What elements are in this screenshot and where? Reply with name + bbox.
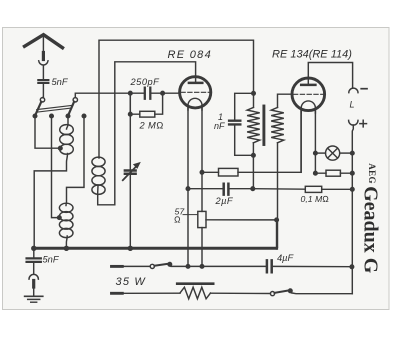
wire heater row — [202, 110, 301, 172]
node grid right — [161, 91, 165, 95]
wire L1 bottom — [34, 154, 67, 248]
resistor R3 57ohm box — [198, 211, 206, 227]
wire L2 bottom to bus — [65, 236, 68, 248]
wire R5 row — [253, 188, 352, 191]
switch S1 pole a pivot — [40, 98, 44, 102]
variable capacitor C3 plates — [125, 171, 136, 174]
transformer T1 secondary — [271, 107, 284, 142]
node R5 right — [351, 188, 355, 192]
svg-text:Geadux G: Geadux G — [360, 186, 382, 274]
coil L1 — [60, 125, 74, 135]
antenna — [25, 35, 63, 48]
node C4 right — [251, 187, 255, 191]
transformer T1 core — [262, 106, 265, 145]
wire lamp left — [315, 152, 325, 154]
wire antenna stem — [42, 36, 44, 53]
heater resistor R6 bar — [177, 282, 213, 285]
tube U2 grid dashes — [294, 93, 324, 95]
resistor R1 2Mohm box — [140, 111, 155, 117]
switch S2 pivot — [150, 264, 154, 268]
plus sign — [360, 120, 367, 127]
wire grid line — [75, 93, 180, 97]
wire R6 to S3 — [211, 292, 271, 294]
wire R3 tap — [206, 219, 277, 221]
node L2 tap — [58, 216, 62, 220]
heater resistor R6 zigzag — [180, 287, 211, 299]
tube U1 grid dashes — [181, 91, 210, 93]
node contact A2 — [66, 114, 70, 118]
svg-text:L: L — [350, 100, 355, 110]
variable capacitor C3 arrow — [123, 166, 137, 180]
wire primary bottom lead — [252, 143, 254, 189]
wire R4 row — [315, 172, 352, 174]
wire row1 to S2 — [122, 265, 150, 267]
wire A1 to L1 tap — [35, 116, 60, 148]
wire U2 filament right leg — [314, 111, 316, 173]
wire U2 anode to minus terminal — [308, 63, 352, 88]
resistor R4 box — [326, 170, 340, 176]
coil L3 reaction — [92, 157, 105, 166]
wire anode rail top — [99, 40, 254, 158]
wire varcap bottom to bus — [129, 175, 131, 248]
svg-text:2 MΩ: 2 MΩ — [139, 120, 164, 130]
capacitor C2 250pF plates — [145, 88, 151, 99]
switch S1 pole a arm — [35, 102, 41, 116]
capacitor C7 4uF plates — [267, 260, 272, 272]
wire S3 to right rail — [290, 292, 352, 294]
node bus L2 — [64, 246, 68, 250]
node row1 right — [350, 265, 354, 269]
svg-text:35 W: 35 W — [116, 276, 147, 288]
svg-text:5nF: 5nF — [43, 255, 60, 265]
wire primary top lead — [253, 93, 255, 107]
capacitor C5 1nF plates — [229, 121, 240, 125]
switch S1 pole b arm — [68, 102, 74, 116]
terminal plus — [349, 120, 358, 125]
wire socket to C1 — [42, 66, 44, 79]
capacitor C6 5nF plates — [27, 258, 41, 262]
node S3 contact — [289, 289, 293, 293]
node primary bottom — [252, 154, 256, 158]
wire secondary bottom down — [277, 143, 279, 247]
node L1 tap — [59, 146, 63, 150]
resistor R5 0.1Mohm box — [305, 186, 321, 192]
svg-text:Ω: Ω — [174, 215, 181, 225]
transformer T1 primary — [247, 107, 260, 142]
svg-text:4µF: 4µF — [277, 253, 295, 263]
wire to R1 — [130, 93, 140, 114]
wire B1 down to L2 tap — [52, 116, 59, 218]
wire R3 bottom — [201, 228, 203, 267]
wire secondary top to U2 grid — [278, 94, 293, 107]
wire bus up right — [276, 220, 278, 249]
wire bus to C6 — [33, 248, 35, 256]
svg-text:RE 134(RE 114): RE 134(RE 114) — [272, 49, 352, 61]
node R4 right — [351, 171, 355, 175]
plug ground socket — [29, 274, 38, 279]
node transformer top — [252, 92, 256, 96]
wire B2 to L2 top — [66, 116, 84, 206]
node S2 contact — [168, 263, 172, 267]
ground — [25, 295, 43, 297]
bus chassis — [34, 247, 277, 250]
lamp LA1 — [326, 146, 340, 160]
coil L2 — [59, 203, 73, 212]
node bus varcap — [128, 246, 132, 250]
plug antenna pin — [42, 53, 45, 60]
node row1 leg2 — [200, 265, 204, 269]
switch S1 pole b pivot — [73, 98, 77, 102]
svg-text:nF: nF — [214, 121, 225, 131]
wire U1 filament right leg — [201, 108, 203, 211]
node C4 left — [186, 187, 190, 191]
wire C4 2uF row — [188, 188, 253, 190]
tube U2 anode — [301, 84, 315, 87]
tube U1 RE084 envelope — [180, 77, 211, 108]
wire plug to ground — [33, 287, 35, 296]
tube U2 filament arch — [301, 101, 315, 113]
capacitor C1 5nF plates — [38, 80, 48, 83]
plug ground pin — [32, 281, 35, 288]
resistor R2 box — [219, 168, 239, 176]
switch S3 pivot — [270, 292, 274, 296]
wire 1nF branch — [235, 93, 254, 155]
capacitor C4 2uF plates — [224, 184, 229, 195]
minus sign — [361, 88, 367, 90]
wire C6 to plug — [33, 263, 35, 273]
svg-text:AEG: AEG — [367, 163, 377, 184]
plug antenna socket — [39, 61, 48, 65]
terminal minus — [349, 88, 358, 93]
node R1 left — [129, 112, 133, 116]
node lamp right — [351, 151, 355, 155]
svg-text:2µF: 2µF — [215, 196, 234, 206]
tube U1 anode — [189, 82, 202, 85]
node row1 leg1 — [186, 265, 190, 269]
node contact B1 — [50, 114, 54, 118]
tube U1 filament arch — [188, 98, 202, 110]
svg-text:250pF: 250pF — [130, 77, 161, 87]
tube U2 RE134 envelope — [292, 78, 325, 111]
wire varcap top — [129, 93, 131, 169]
wire R1 right — [155, 93, 163, 114]
node lamp left — [314, 151, 318, 155]
wire U2 filament left leg — [300, 111, 302, 172]
svg-text:5nF: 5nF — [52, 77, 69, 87]
wire lamp right — [340, 152, 353, 154]
node heater left — [200, 171, 204, 175]
wire plus terminal down — [352, 125, 353, 294]
wire row2 to heater resistor — [122, 292, 180, 294]
node grid left — [129, 91, 133, 95]
node bus left — [32, 246, 36, 250]
switch S3 arm — [275, 290, 290, 293]
node contact B2 — [82, 114, 86, 118]
wire L3 bottom to anode link — [98, 62, 196, 205]
svg-text:0,1 MΩ: 0,1 MΩ — [301, 194, 330, 204]
node contact A1 — [33, 114, 37, 118]
node R4 left — [314, 171, 318, 175]
wire C7 to right rail — [273, 265, 352, 267]
node R3 tap join — [275, 218, 279, 222]
wire U1 filament left leg — [187, 108, 189, 266]
mains stub row2 — [112, 292, 123, 295]
svg-text:RE 084: RE 084 — [168, 49, 213, 61]
wire A2 to L1 top — [67, 116, 69, 129]
wire row1 to C7 — [170, 265, 266, 268]
mains stub row1 — [112, 265, 123, 268]
wire C1 to switch — [42, 84, 45, 98]
switch S1 linkage — [37, 105, 72, 112]
switch S2 arm — [154, 264, 169, 266]
wire R3 pointer — [183, 214, 198, 216]
